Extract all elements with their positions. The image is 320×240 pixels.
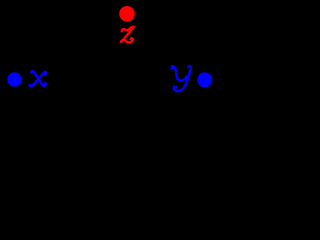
node y dot (blue)	[197, 72, 212, 87]
node z dot (red)	[119, 6, 135, 22]
node z label	[121, 27, 134, 43]
node x label	[30, 71, 46, 86]
node x dot (blue)	[7, 72, 21, 86]
node y label	[172, 66, 191, 91]
